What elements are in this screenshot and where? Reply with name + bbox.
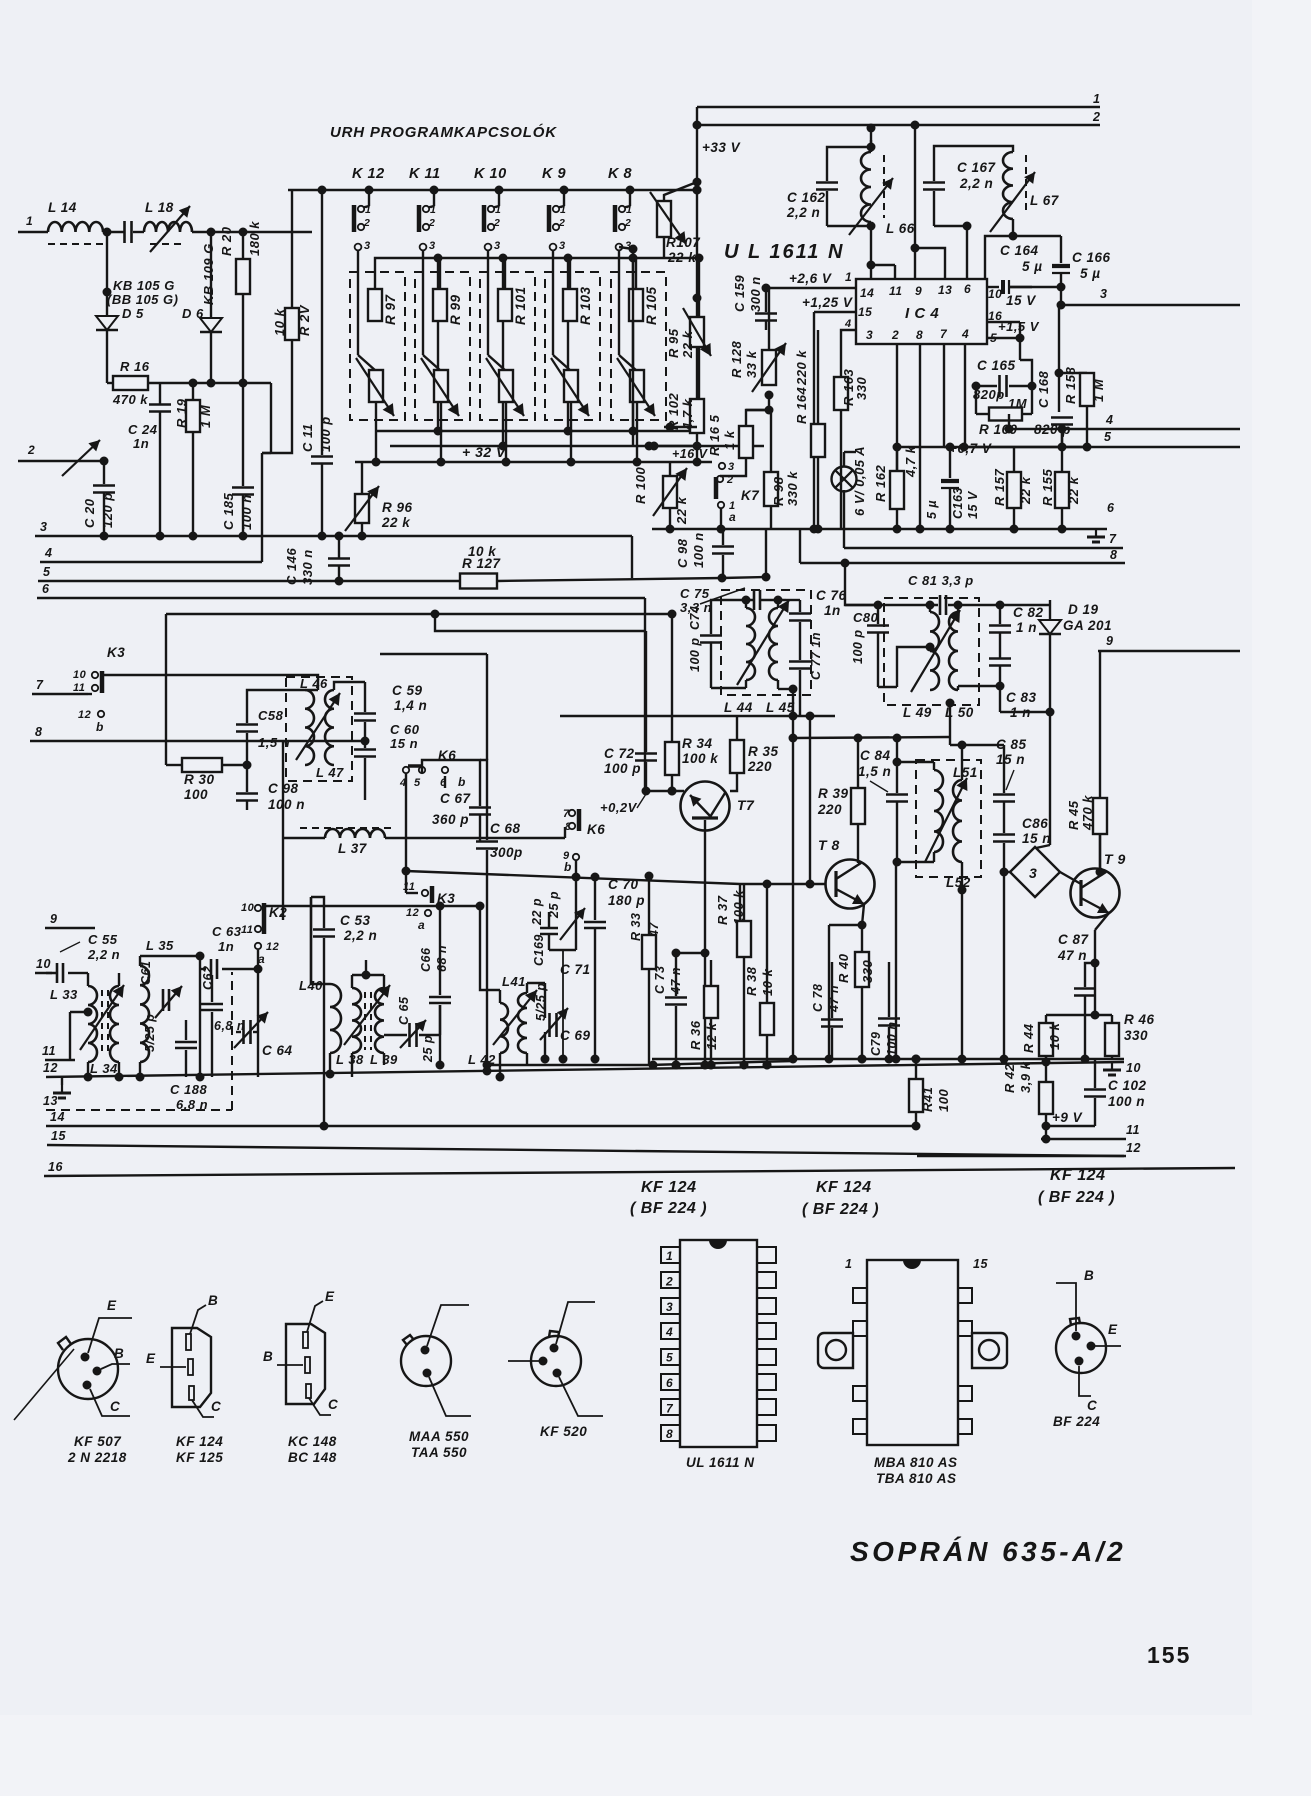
wire bus line 12 right [917, 1141, 1141, 1156]
svg-text:8: 8 [1110, 548, 1117, 562]
wire R33 top [645, 872, 654, 909]
wire bus line 1 right [697, 92, 1100, 107]
svg-text:R 46: R 46 [1124, 1012, 1155, 1027]
svg-text:R 162: R 162 [873, 465, 888, 502]
svg-text:12: 12 [43, 1061, 58, 1075]
potentiometer R128 [729, 341, 786, 410]
svg-text:+33 V: +33 V [702, 140, 741, 155]
svg-text:L 33: L 33 [50, 987, 78, 1002]
capacitor C62 [201, 966, 245, 1077]
svg-text:10 k: 10 k [1047, 1022, 1062, 1050]
switch K8 label [608, 166, 633, 182]
dashed box K 11 [415, 272, 470, 420]
svg-text:R 44: R 44 [1021, 1023, 1036, 1053]
svg-text:+1,25 V: +1,25 V [802, 295, 853, 310]
wire bus line 7 right [844, 529, 1123, 548]
svg-text:3: 3 [1029, 865, 1037, 881]
wire bus line 2 right [697, 110, 1100, 130]
wire 716 line [560, 712, 835, 721]
svg-text:L 18: L 18 [145, 200, 174, 215]
svg-text:I C 4: I C 4 [905, 305, 939, 322]
svg-text:C 162: C 162 [787, 190, 826, 205]
text +0,2V [600, 794, 646, 815]
wire K6 stub [444, 776, 446, 788]
switch K11 [419, 204, 436, 232]
svg-text:B: B [1084, 1268, 1094, 1283]
capacitor C20 [82, 457, 115, 541]
svg-text:L 47: L 47 [316, 765, 344, 780]
wire L47 top out [334, 682, 365, 706]
potentiometer R96 [345, 462, 413, 541]
capacitor C159 [732, 275, 777, 330]
svg-text:C80: C80 [853, 610, 879, 625]
wire pot bottom K 10 [505, 402, 507, 462]
resistor R40 [836, 925, 875, 1064]
wire R 105 top [636, 254, 704, 290]
wire C71 drop [562, 950, 564, 1059]
resistor R163 [834, 369, 869, 529]
wire +32V line [355, 458, 712, 467]
wire pin16 net [987, 319, 1040, 343]
wire R29 bottom jog [262, 340, 292, 453]
wire K3c net [406, 871, 418, 893]
wire R 103 chain drop [632, 258, 634, 446]
wire bus line 9 right [1098, 634, 1240, 651]
inductor L18 variable [144, 200, 192, 252]
wire C83 bottom [1000, 711, 1050, 713]
resistor R 97 [368, 289, 398, 325]
resistor R37 [715, 884, 751, 1065]
svg-text:15: 15 [858, 305, 872, 319]
wire bus line 7 left stub [32, 678, 88, 694]
switch K12 contact 3 [355, 240, 371, 252]
svg-text:10 k: 10 k [272, 308, 287, 336]
wire k6b row [406, 871, 740, 921]
wire K6b bottom [572, 860, 581, 882]
svg-text:11: 11 [73, 682, 85, 694]
svg-text:9: 9 [1106, 634, 1113, 648]
ic IC4 side pin numbers [988, 287, 1002, 345]
switch K6 second [563, 808, 605, 874]
capacitor C83 [989, 659, 1037, 721]
text KF507 [67, 1434, 127, 1465]
svg-text:10 k: 10 k [468, 544, 497, 559]
switch K7 [716, 461, 760, 524]
dashed L38 L39 core [365, 992, 371, 1050]
wire contact3 to pot K 9 [553, 250, 571, 371]
BF224 B lead [1056, 1268, 1094, 1331]
svg-text:155: 155 [1147, 1642, 1191, 1668]
svg-text:R 39: R 39 [818, 786, 849, 801]
svg-text:b: b [564, 860, 572, 874]
node R102 bottom [650, 423, 702, 451]
text +32V [462, 444, 507, 460]
svg-text:5/25 p: 5/25 p [143, 1014, 157, 1052]
wire L45 top [774, 596, 801, 609]
svg-text:C 68: C 68 [490, 821, 521, 836]
wire L42 top [527, 982, 545, 984]
wire L51 top [893, 758, 935, 771]
wire pin10 net [1009, 283, 1066, 292]
svg-text:E: E [1108, 1322, 1118, 1337]
wire L45 bottom [778, 680, 798, 716]
svg-text:16: 16 [48, 1160, 63, 1174]
wire diamond left [1004, 871, 1010, 873]
node 1 input wire [18, 214, 48, 232]
svg-text:22 k: 22 k [1018, 476, 1033, 505]
svg-text:C 166: C 166 [1072, 250, 1111, 265]
wire R128 branch [768, 288, 770, 330]
wire L67 tank top [934, 146, 1013, 160]
case MAA550 [401, 1335, 451, 1386]
svg-text:C 98: C 98 [675, 538, 690, 568]
svg-text:C66: C66 [419, 947, 433, 972]
switch K12 label [352, 166, 385, 182]
svg-text:C 75: C 75 [680, 586, 710, 601]
svg-text:KF 507: KF 507 [74, 1434, 122, 1449]
potentiometer K 9 trim [551, 358, 589, 416]
svg-text:360 p: 360 p [432, 812, 469, 827]
svg-text:C 188: C 188 [170, 1082, 207, 1097]
KF124 B lead [190, 1293, 218, 1334]
svg-text:R 99: R 99 [448, 294, 463, 325]
inductor L37 horizontal [300, 828, 395, 856]
wire L18 to switch bank [192, 228, 312, 237]
svg-text:C61: C61 [139, 961, 153, 985]
svg-text:4: 4 [961, 327, 969, 341]
bus10 right dots [825, 1055, 1009, 1064]
inductor L34 [90, 973, 119, 1077]
svg-text:100 k: 100 k [731, 890, 746, 925]
wire L37 left [283, 837, 325, 839]
wire +16V node [672, 446, 709, 467]
dashed L33 L34 core [102, 990, 108, 1055]
node antenna junction [103, 228, 112, 237]
ground under line10 [1103, 1062, 1121, 1075]
wire bus line 4 [40, 546, 262, 562]
svg-text:1: 1 [430, 204, 436, 216]
svg-text:25 p: 25 p [421, 1035, 435, 1063]
svg-text:15: 15 [51, 1129, 66, 1143]
svg-text:R 97: R 97 [383, 293, 398, 325]
resistor R35 [730, 716, 779, 791]
wire line3 end drop [631, 536, 633, 578]
dashed box L51 L52 [916, 760, 981, 877]
wire L46 bottom [236, 765, 258, 810]
wire y613 line [166, 613, 672, 615]
wire C68 top [480, 760, 487, 785]
inductor L38 [336, 975, 364, 1077]
svg-text:1 M: 1 M [198, 404, 213, 428]
svg-text:E: E [325, 1289, 335, 1304]
svg-text:KF 124: KF 124 [816, 1179, 871, 1196]
svg-text:7: 7 [1109, 532, 1117, 546]
svg-text:2: 2 [428, 217, 435, 229]
wire C53 top [311, 897, 324, 912]
svg-text:15 V: 15 V [1006, 293, 1036, 308]
capacitor C76 [789, 588, 847, 648]
wire T7 emitter left [642, 787, 685, 796]
wire K3 pins [88, 693, 92, 695]
wire bus line 5 right [964, 430, 1240, 447]
svg-text:6: 6 [1107, 501, 1115, 515]
svg-text:1: 1 [845, 1257, 852, 1271]
wire line13 dashed vert [231, 972, 233, 1110]
svg-text:5 µ: 5 µ [1022, 259, 1043, 274]
ic MBA810AS package [818, 1260, 1007, 1445]
svg-text:+2,6 V: +2,6 V [789, 271, 832, 286]
wire pin8 drop [916, 344, 925, 534]
svg-text:1: 1 [1093, 92, 1100, 106]
svg-text:R 19: R 19 [174, 398, 189, 428]
svg-text:1n: 1n [218, 939, 234, 954]
svg-text:15 n: 15 n [390, 736, 418, 751]
svg-text:4: 4 [44, 546, 52, 560]
capacitor C167 [923, 160, 997, 226]
wire R 105 chain drop [698, 258, 700, 431]
svg-text:KF 124: KF 124 [641, 1179, 696, 1196]
svg-text:K3: K3 [107, 645, 125, 660]
svg-text:K 8: K 8 [608, 166, 633, 182]
svg-text:K 9: K 9 [542, 166, 566, 182]
svg-text:C: C [1087, 1398, 1097, 1413]
wire bus line 6 [37, 582, 645, 598]
wire C59 to line8 [283, 737, 370, 746]
svg-text:15 n: 15 n [996, 752, 1025, 767]
svg-text:22 k: 22 k [680, 330, 695, 359]
wire C85 top [950, 737, 1004, 780]
switch K8 contact 3 [616, 240, 632, 252]
svg-text:100 n: 100 n [1108, 1094, 1145, 1109]
svg-text:2: 2 [493, 217, 500, 229]
svg-text:2: 2 [624, 217, 631, 229]
svg-text:5 µ: 5 µ [1080, 266, 1101, 281]
capacitor C80 [851, 601, 889, 688]
svg-text:R 105: R 105 [644, 286, 659, 325]
wire bus line 3 right [1059, 287, 1240, 305]
svg-text:R 16: R 16 [120, 359, 150, 374]
svg-text:KF 125: KF 125 [176, 1450, 223, 1465]
resistor R 103 [563, 286, 593, 325]
capacitor C70 [576, 873, 645, 921]
svg-text:13: 13 [938, 283, 952, 297]
svg-text:C 98: C 98 [268, 781, 299, 796]
wire C166 top [1013, 235, 1061, 237]
capacitor C59 [354, 683, 427, 741]
wire diamond bottom drop [1000, 868, 1009, 1060]
svg-text:11: 11 [889, 284, 902, 298]
svg-text:330 n: 330 n [300, 549, 315, 585]
MAA550 pins [421, 1346, 432, 1378]
svg-text:100 p: 100 p [851, 630, 865, 664]
wire R 99 chain drop [502, 258, 504, 446]
capacitor C11 [300, 186, 333, 541]
svg-text:TAA 550: TAA 550 [411, 1445, 467, 1460]
wire C66 top [264, 902, 480, 996]
svg-text:L 44: L 44 [724, 700, 753, 715]
potentiometer K 12 trim [356, 358, 394, 416]
wire T8 base line [740, 880, 826, 889]
wire L49 tap feed [878, 643, 935, 688]
wire R41 to line14 [0, 0, 1, 1]
wire L66 tank bottom [827, 222, 876, 280]
switch K9 label [542, 166, 566, 182]
KF507 C lead [90, 1389, 130, 1416]
svg-text:4: 4 [1105, 413, 1113, 427]
svg-text:2: 2 [665, 1274, 673, 1288]
text C98 lower [268, 781, 305, 812]
svg-text:C86: C86 [1022, 816, 1048, 831]
capacitor C65 trimmer [397, 996, 435, 1063]
resistor R 101 [498, 286, 528, 325]
svg-text:3: 3 [494, 240, 501, 252]
wire switch bank top bus [288, 186, 702, 195]
wire bus line 10 right [652, 1059, 1141, 1075]
wire T9 collector [1099, 834, 1101, 869]
svg-text:D 5: D 5 [122, 306, 144, 321]
wire R 103 top [570, 254, 638, 290]
wire y631 feed [431, 610, 647, 632]
capacitor C98 upper [675, 529, 734, 578]
inductor L39 [370, 975, 398, 1067]
svg-text:R 37: R 37 [715, 895, 730, 925]
wire collect line b [390, 442, 764, 451]
svg-text:R 158: R 158 [1063, 367, 1078, 404]
switch K12 [354, 204, 371, 232]
wire bus line 8 left [30, 725, 283, 741]
KC148 C lead [309, 1397, 338, 1415]
text KF124 c [1038, 1167, 1115, 1206]
wire pot bottom K 8 [636, 402, 638, 462]
svg-text:11: 11 [241, 924, 253, 936]
svg-text:100: 100 [184, 787, 208, 802]
svg-text:C 168: C 168 [1036, 371, 1051, 408]
svg-text:R 34: R 34 [682, 736, 713, 751]
svg-text:180 k: 180 k [247, 221, 262, 256]
wire K6 right lead [422, 760, 480, 773]
resistor R44 [1021, 1015, 1062, 1067]
svg-text:2: 2 [363, 217, 370, 229]
svg-text:E: E [146, 1351, 156, 1366]
svg-text:BC 148: BC 148 [288, 1450, 337, 1465]
resistor R160 [976, 396, 1071, 437]
svg-text:1 M: 1 M [1091, 378, 1106, 402]
svg-text:15 V: 15 V [966, 490, 980, 519]
inductor L46 [300, 676, 344, 780]
svg-text:1n: 1n [133, 436, 149, 451]
wire node to R158 [1055, 305, 1088, 378]
resistor R29 10k [272, 304, 312, 340]
svg-text:2: 2 [891, 328, 899, 342]
svg-text:C 102: C 102 [1108, 1078, 1147, 1093]
svg-text:R 38: R 38 [744, 966, 759, 996]
resistor R41 [909, 1055, 951, 1131]
switch K10 contact 3 [485, 240, 501, 252]
wire lamp top [844, 452, 856, 467]
capacitor C74 [688, 606, 722, 678]
svg-text:R 40: R 40 [836, 953, 851, 983]
KF124 C lead [192, 1399, 221, 1417]
capacitor C169 C71 trimmer [530, 891, 591, 977]
svg-text:b: b [96, 720, 104, 734]
text UL 1611 N [724, 241, 844, 263]
wire C69 net [544, 983, 546, 1059]
svg-text:10: 10 [241, 902, 255, 914]
KF520 bottom lead [559, 1377, 603, 1416]
svg-text:C58: C58 [258, 708, 284, 723]
svg-text:12: 12 [266, 941, 279, 953]
resistor R164 [794, 330, 825, 534]
svg-text:R 103: R 103 [578, 286, 593, 325]
svg-text:R 98: R 98 [771, 476, 786, 506]
potentiometer K 10 trim [486, 358, 524, 416]
svg-text:C 146: C 146 [284, 548, 299, 585]
MAA550 bottom lead [429, 1377, 471, 1416]
svg-text:68 n: 68 n [435, 945, 449, 972]
resistor R19 [174, 383, 213, 536]
wire T9 emitter down [1095, 913, 1109, 1015]
svg-text:TBA 810 AS: TBA 810 AS [876, 1471, 957, 1486]
wire pin9 riser [914, 125, 916, 279]
svg-text:1 n: 1 n [1016, 620, 1037, 635]
switch K11 contact 3 [420, 240, 436, 252]
ground symbol right [1087, 529, 1105, 542]
text +6,7 V [949, 441, 992, 456]
text BF224 [1053, 1414, 1100, 1429]
svg-text:11: 11 [1126, 1123, 1140, 1137]
coupling arrow L33 L34 [80, 985, 124, 1050]
wire R 97 chain drop [437, 258, 439, 431]
wire R128 top to C159 [768, 330, 770, 350]
svg-text:10: 10 [988, 287, 1002, 301]
wire C58 top [247, 690, 318, 700]
text KF124 a [630, 1179, 707, 1217]
capacitor C79 [869, 962, 900, 1059]
wire R 101 top [505, 254, 573, 290]
ic IC4 bottom pin numbers [866, 327, 969, 342]
capacitor C185 [221, 294, 254, 541]
switch K8 [615, 204, 632, 232]
svg-text:SOPRÁN 635-A/2: SOPRÁN 635-A/2 [850, 1536, 1126, 1567]
svg-text:URH PROGRAMKAPCSOLÓK: URH PROGRAMKAPCSOLÓK [330, 123, 557, 141]
wire +1.25V pin15 [810, 312, 857, 534]
coupling arrow L51 L52 [925, 778, 967, 862]
inductor L45 [766, 608, 795, 715]
svg-text:14: 14 [860, 286, 874, 300]
wire R 101 chain drop [567, 258, 569, 431]
wire C77 bottom [799, 695, 801, 716]
inductor L35 [136, 938, 175, 1082]
resistor R102 [666, 393, 704, 446]
svg-text:C 82: C 82 [1013, 605, 1044, 620]
svg-text:6: 6 [964, 282, 971, 296]
resistor R38 [744, 884, 775, 1070]
wire top feed C80 [841, 559, 879, 606]
svg-text:6: 6 [42, 582, 50, 596]
capacitor C68 [476, 785, 523, 1076]
svg-text:100 n: 100 n [691, 532, 706, 568]
capacitor C61 trimmer [139, 961, 182, 1052]
svg-text:22 k: 22 k [674, 496, 689, 525]
dashed box L44 L45 [721, 590, 811, 695]
wire bus drop K 11 [426, 186, 439, 209]
KF507 pins [81, 1353, 102, 1390]
text MAA550 [409, 1429, 469, 1460]
svg-text:100 p: 100 p [688, 638, 702, 672]
potentiometer R100 [633, 462, 689, 534]
capacitor C146 [284, 536, 350, 586]
svg-text:L 14: L 14 [48, 200, 77, 215]
